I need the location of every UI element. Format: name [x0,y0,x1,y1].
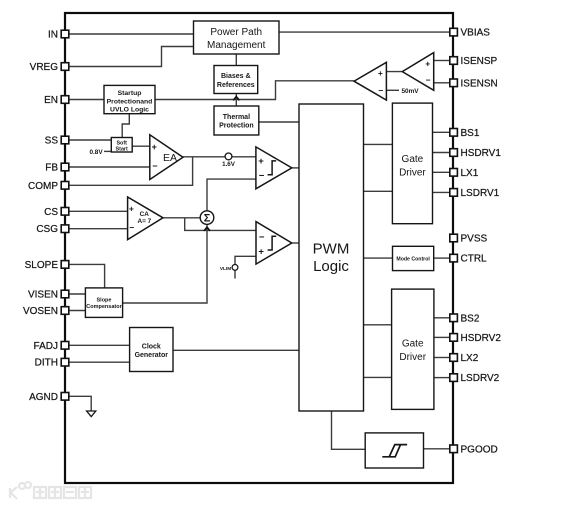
svg-text:−: − [378,86,383,96]
block PWM Logic [299,104,364,411]
svg-text:Protection: Protection [219,123,254,130]
block Gate Driver 2 [392,289,434,409]
pin SS [45,136,69,147]
svg-text:EA: EA [163,152,177,164]
svg-text:Generator: Generator [135,352,169,359]
wire SS to Soft Start [69,139,112,141]
pin LX2 [450,353,479,364]
wire Gate Driver 2 to LSDRV2 [434,377,450,379]
wire CA output to summing node [163,217,200,219]
wire 0.8V reference to Soft Start [104,150,111,152]
svg-text:0.8V: 0.8V [89,149,103,156]
label Clock Generator [135,343,169,359]
arrow into summing node [204,227,210,231]
svg-text:CS: CS [44,207,58,218]
svg-text:EN: EN [44,95,58,106]
svg-text:50mV: 50mV [402,88,420,95]
wire Soft Start to EA + input [132,145,150,147]
pin CS [44,207,69,218]
wire PWM Logic to Gate Driver 2 (lower) [364,376,392,378]
comparator U-PWM with hysteresis [256,147,292,189]
pin PGOOD [450,444,498,455]
block Mode Control [393,246,434,270]
wire Slope Compensator output up to summing node [123,225,207,303]
wire Gate Driver 2 to BS2 [434,317,450,319]
svg-text:ISENSN: ISENSN [461,78,498,89]
wire EA output to PWM comparator + input [183,156,256,158]
comparator 50mV current limit [354,62,419,100]
pin LX1 [450,168,479,179]
label Power Path Management [207,27,266,51]
op-amp CA (current amplifier, A=7) [128,197,163,240]
pin ISENSN [450,78,498,89]
pin IN [48,30,69,41]
svg-text:Slope: Slope [97,298,112,304]
ground [87,411,96,417]
label Gate Driver 2 [399,339,426,364]
wire PWM Logic to Gate Driver 1 (lower) [364,190,393,192]
pin BS2 [450,313,480,324]
block PGOOD comparator with hysteresis [365,433,423,468]
wire Gate Driver 1 to BS1 [433,131,450,133]
summing node sigma [200,211,214,225]
wire CSG to CA - input [69,228,128,230]
svg-text:Start: Start [116,146,128,152]
svg-text:UVLO Logic: UVLO Logic [110,107,149,114]
wire Thermal Protection to Biases & References (vertical) [235,94,237,107]
wire Gate Driver 1 to LSDRV1 [433,191,450,193]
pin VREG [30,62,69,73]
pin VISEN [28,290,69,301]
label Thermal Protection [219,114,254,130]
comparator current-limit with hysteresis [256,222,292,265]
wire FADJ to Clock Generator [69,344,130,346]
svg-text:Protectionand: Protectionand [107,98,153,105]
svg-text:BS2: BS2 [461,313,480,324]
block Biases & References [214,66,258,94]
svg-text:HSDRV1: HSDRV1 [461,148,502,159]
label Gate Driver 1 [399,154,426,179]
svg-text:Mode Control: Mode Control [396,256,430,262]
svg-text:Management: Management [207,40,266,51]
svg-text:AGND: AGND [29,392,58,403]
pin VBIAS [450,28,490,39]
wire Gate Driver 2 to LX2 [434,357,450,359]
svg-text:FB: FB [45,163,58,174]
wire PGOOD comparator to PGOOD pin [424,448,450,450]
IC outer boundary box [65,13,453,483]
svg-text:Driver: Driver [399,168,426,179]
block Thermal Protection [214,106,259,135]
label Biases & References [217,73,255,89]
block Startup Protection and UVLO Logic [104,85,155,113]
svg-text:CA: CA [140,211,150,218]
svg-text:VBIAS: VBIAS [461,28,491,39]
svg-text:+: + [129,204,134,214]
svg-text:PVSS: PVSS [461,234,488,245]
wire PWM Logic to Gate Driver 2 (upper) [364,324,392,326]
wire Thermal Protection to PWM Logic [259,121,299,123]
svg-text:Clock: Clock [142,343,161,350]
op-amp current sense (ISENSP/ISENSN) [402,53,433,91]
svg-text:VLIM: VLIM [220,266,231,272]
svg-text:−: − [152,161,157,171]
svg-text:Σ: Σ [204,213,211,225]
svg-text:References: References [217,82,255,89]
current source VLIM [220,265,238,272]
block Soft Start [111,138,132,153]
svg-text:Biases &: Biases & [221,73,251,80]
svg-text:+: + [425,59,430,69]
svg-text:LSDRV2: LSDRV2 [461,373,500,384]
label Soft Start [116,141,128,153]
svg-text:CSG: CSG [36,224,58,235]
svg-text:Compensator: Compensator [86,304,122,310]
label Slope Compensator [86,298,122,311]
wire ISENSP to current sense amp + input [434,60,450,62]
wire VREG to Power Path Management [69,47,194,67]
pin ISENSP [450,56,498,67]
svg-text:LX1: LX1 [461,168,479,179]
wire summing node to PWM comparator - input [207,179,256,211]
pin LSDRV1 [450,188,500,199]
pin PVSS [450,234,488,245]
wire SLOPE to Slope Compensator [69,264,105,288]
svg-text:1.6V: 1.6V [222,161,236,168]
block Gate Driver 1 [392,103,432,224]
wire VLIM source to current-limit comparator + input [235,256,256,264]
svg-text:HSDRV2: HSDRV2 [461,333,502,344]
pin LSDRV2 [450,373,500,384]
svg-text:Power Path: Power Path [210,27,262,38]
hysteresis symbol inside PGOOD block [382,445,407,457]
wire FB to EA - input [69,166,150,168]
pin EN [44,95,69,106]
pin HSDRV2 [450,333,502,344]
wire COMP to EA output node [69,157,193,186]
wire Power Path Management to VBIAS [279,31,449,33]
svg-text:ISENSP: ISENSP [461,56,498,67]
wire AGND to ground symbol [69,396,91,411]
svg-text:CTRL: CTRL [461,254,488,265]
svg-text:SS: SS [45,136,59,147]
pin CTRL [450,254,487,265]
svg-text:−: − [129,223,134,233]
svg-text:PGOOD: PGOOD [461,444,498,455]
svg-text:FADJ: FADJ [34,341,58,352]
wire CS to CA + input [69,210,128,212]
wire DITH to Clock Generator [69,361,130,363]
wire PWM Logic to Gate Driver 1 (upper) [364,143,393,145]
svg-text:BS1: BS1 [461,128,480,139]
svg-text:SLOPE: SLOPE [25,260,59,271]
svg-text:LSDRV1: LSDRV1 [461,188,500,199]
block Power Path Management [194,21,280,54]
wire current sense amp output to 50mV comparator + input [386,71,402,73]
pin CSG [36,224,68,235]
svg-text:−: − [426,75,431,85]
label PWM Logic [313,241,350,276]
arrow into Biases & References [233,97,239,101]
svg-text:−: − [259,232,265,243]
wire Clock Generator to PWM Logic [173,349,299,351]
block Clock Generator [130,328,173,372]
svg-text:COMP: COMP [28,181,58,192]
svg-text:Gate: Gate [402,154,424,165]
wire VISEN to Slope Compensator [69,293,86,295]
svg-text:VREG: VREG [30,62,59,73]
pin COMP [28,181,69,192]
1.6V clamp node on EA output [222,153,236,168]
pin FADJ [34,341,69,352]
label Startup Protection and UVLO Logic [107,90,153,114]
wire PWM Logic to PGOOD comparator [332,411,366,449]
svg-text:Gate: Gate [402,339,424,350]
pin DITH [35,358,69,369]
wire CA output tap to current-limit comparator - input [185,218,256,231]
wire Gate Driver 1 to LX1 [433,171,450,173]
wire PWM comparator output to PWM Logic [292,167,299,169]
svg-text:Logic: Logic [313,258,349,275]
pin AGND [29,392,69,403]
svg-text:VOSEN: VOSEN [23,306,58,317]
wire VLIM source lower stub [234,270,236,278]
svg-text:LX2: LX2 [461,353,479,364]
svg-text:Driver: Driver [399,352,426,363]
wire EN through Startup box to current-limit comparator output [69,81,354,100]
svg-text:−: − [259,170,265,181]
svg-text:IN: IN [48,30,58,41]
wire Startup box to Soft Start [122,114,129,138]
svg-text:VISEN: VISEN [28,290,58,301]
op-amp EA (error amplifier) [150,135,183,180]
wire Gate Driver 1 to HSDRV1 [433,152,450,154]
block Slope Compensator [85,288,122,318]
svg-text:PWM: PWM [313,241,350,258]
pin SLOPE [25,260,69,271]
pin BS1 [450,128,480,139]
wire Mode Control to CTRL [434,257,450,259]
svg-text:A= 7: A= 7 [137,218,151,225]
wire Gate Driver 2 to HSDRV2 [434,336,450,338]
svg-text:+: + [378,68,383,78]
svg-text:Thermal: Thermal [223,114,250,121]
pin HSDRV1 [450,148,502,159]
wire PWM Logic to Mode Control [364,257,393,259]
wire 50mV reference to comparator - input [386,89,399,91]
svg-text:+: + [152,142,157,152]
wire IN to Power Path Management [69,33,194,35]
svg-text:+: + [258,156,264,167]
wire VOSEN to Slope Compensator [69,310,86,312]
wire Power Path Management to Biases & References [235,54,237,66]
watermark logo bottom-left (faint) [10,482,91,499]
pin FB [45,163,69,174]
pin VOSEN [23,306,69,317]
wire current-limit comparator output to PWM Logic [292,242,299,244]
wire ISENSN to current sense amp - input [434,82,450,84]
svg-text:Startup: Startup [118,90,142,97]
svg-text:DITH: DITH [35,358,58,369]
svg-text:+: + [258,246,264,257]
